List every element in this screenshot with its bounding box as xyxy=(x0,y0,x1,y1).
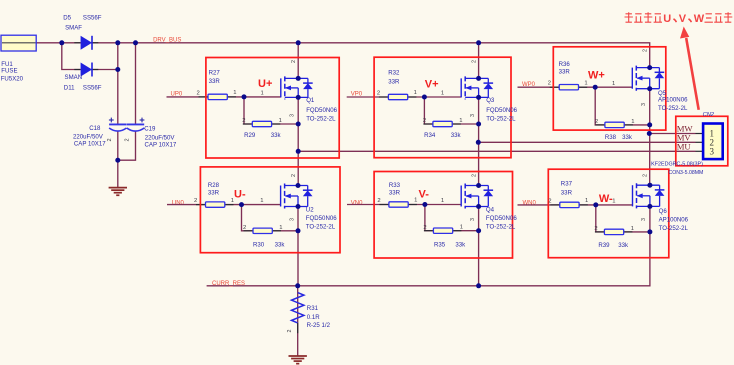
svg-text:3: 3 xyxy=(290,114,296,117)
svg-text:2: 2 xyxy=(197,90,200,96)
svg-text:FQD50N06: FQD50N06 xyxy=(306,107,337,114)
svg-text:C18: C18 xyxy=(89,125,101,132)
svg-text:1: 1 xyxy=(231,198,234,204)
svg-text:3: 3 xyxy=(710,147,715,157)
svg-text:FUSE: FUSE xyxy=(1,67,17,74)
svg-text:2: 2 xyxy=(643,174,649,177)
svg-text:FQD50N06: FQD50N06 xyxy=(486,215,517,222)
svg-text:R29: R29 xyxy=(244,132,256,139)
svg-text:1: 1 xyxy=(279,118,282,124)
svg-text:1: 1 xyxy=(441,91,444,97)
svg-text:2: 2 xyxy=(594,226,597,232)
svg-text:SS56F: SS56F xyxy=(83,85,102,92)
svg-text:U-: U- xyxy=(234,188,246,200)
svg-text:2: 2 xyxy=(423,118,426,124)
svg-text:33k: 33k xyxy=(618,242,629,249)
svg-text:KF2EDGRC-5.08(3P): KF2EDGRC-5.08(3P) xyxy=(651,162,703,168)
svg-text:0.1R: 0.1R xyxy=(307,314,320,321)
svg-text:CON3-5.08MM: CON3-5.08MM xyxy=(669,170,704,176)
svg-text:R35: R35 xyxy=(434,242,446,249)
svg-text:33R: 33R xyxy=(209,78,221,85)
svg-text:AP100N06: AP100N06 xyxy=(658,96,688,103)
svg-text:R27: R27 xyxy=(209,70,221,77)
svg-text:R37: R37 xyxy=(561,181,573,188)
svg-text:CAP 10X17: CAP 10X17 xyxy=(74,141,106,148)
svg-text:2: 2 xyxy=(643,49,649,52)
svg-text:R38: R38 xyxy=(605,134,617,141)
svg-text:SMAF: SMAF xyxy=(65,25,82,32)
svg-text:DRV_BUS: DRV_BUS xyxy=(153,37,181,43)
svg-text:1: 1 xyxy=(414,198,417,204)
svg-text:FU5X20: FU5X20 xyxy=(1,75,24,82)
svg-text:2: 2 xyxy=(595,119,598,125)
svg-text:R34: R34 xyxy=(424,132,436,139)
svg-text:R39: R39 xyxy=(598,242,610,249)
svg-text:33R: 33R xyxy=(559,68,571,75)
svg-text:SS56F: SS56F xyxy=(83,15,102,22)
svg-text:2: 2 xyxy=(291,174,297,177)
svg-text:V: V xyxy=(679,13,687,25)
svg-text:R-25 1/2: R-25 1/2 xyxy=(307,322,331,329)
svg-text:R32: R32 xyxy=(388,70,400,77)
svg-text:3: 3 xyxy=(641,103,647,106)
svg-text:1: 1 xyxy=(279,225,282,231)
svg-text:V+: V+ xyxy=(425,78,439,90)
svg-text:TO-252-2L: TO-252-2L xyxy=(658,105,688,112)
svg-text:2: 2 xyxy=(194,198,197,204)
svg-text:3: 3 xyxy=(289,218,295,221)
svg-text:1: 1 xyxy=(585,198,588,204)
svg-text:1: 1 xyxy=(233,90,236,96)
svg-text:TO-252-2L: TO-252-2L xyxy=(659,225,689,232)
svg-text:2: 2 xyxy=(287,330,293,333)
svg-text:W+: W+ xyxy=(588,69,605,81)
svg-text:2: 2 xyxy=(243,225,246,231)
svg-text:33R: 33R xyxy=(388,79,400,86)
svg-text:C19: C19 xyxy=(144,125,156,132)
svg-text:33k: 33k xyxy=(622,134,633,141)
svg-text:2: 2 xyxy=(107,138,113,141)
svg-text:TO-252-2L: TO-252-2L xyxy=(486,116,516,123)
svg-text:1: 1 xyxy=(260,198,263,204)
svg-text:D5: D5 xyxy=(63,15,71,22)
svg-text:FQD50N06: FQD50N06 xyxy=(306,215,337,222)
svg-text:FQD50N06: FQD50N06 xyxy=(486,107,517,114)
svg-text:D11: D11 xyxy=(64,85,75,92)
svg-text:1: 1 xyxy=(631,226,634,232)
svg-text:TO-252-2L: TO-252-2L xyxy=(306,116,336,123)
svg-text:UN0: UN0 xyxy=(172,200,185,206)
svg-text:33R: 33R xyxy=(561,189,573,196)
svg-text:33k: 33k xyxy=(271,132,282,139)
svg-text:VN0: VN0 xyxy=(351,200,363,206)
svg-text:1: 1 xyxy=(612,81,615,87)
svg-text:W-: W- xyxy=(599,193,613,205)
svg-text:V-: V- xyxy=(419,188,430,200)
svg-text:CURR_RES: CURR_RES xyxy=(212,281,245,287)
svg-text:Q4: Q4 xyxy=(486,207,495,214)
svg-text:220uF/50V: 220uF/50V xyxy=(145,135,176,142)
svg-text:1: 1 xyxy=(460,225,463,231)
svg-text:R28: R28 xyxy=(208,182,220,189)
svg-text:1: 1 xyxy=(414,90,417,96)
svg-text:1: 1 xyxy=(584,80,587,86)
svg-text:3: 3 xyxy=(470,218,476,221)
svg-text:2: 2 xyxy=(471,60,477,63)
svg-text:220uF/50V: 220uF/50V xyxy=(73,133,104,140)
svg-text:Q3: Q3 xyxy=(486,97,495,104)
svg-text:2: 2 xyxy=(377,198,380,204)
svg-text:TO-252-2L: TO-252-2L xyxy=(306,224,336,231)
svg-text:2: 2 xyxy=(423,225,426,231)
svg-text:TO-252-2L: TO-252-2L xyxy=(486,224,516,231)
svg-text:33k: 33k xyxy=(455,242,466,249)
svg-text:Q6: Q6 xyxy=(659,208,668,215)
svg-text:CN2: CN2 xyxy=(703,112,715,118)
svg-text:33R: 33R xyxy=(208,190,220,197)
svg-text:33R: 33R xyxy=(389,190,401,197)
svg-text:U+: U+ xyxy=(258,78,272,90)
svg-text:R36: R36 xyxy=(559,61,571,68)
svg-text:2: 2 xyxy=(242,118,245,124)
svg-text:3: 3 xyxy=(641,218,647,221)
svg-text:3: 3 xyxy=(470,114,476,117)
svg-text:SMAN: SMAN xyxy=(65,74,83,81)
svg-text:2: 2 xyxy=(125,138,131,141)
svg-text:R33: R33 xyxy=(389,182,401,189)
svg-text:1: 1 xyxy=(441,198,444,204)
svg-text:U: U xyxy=(663,13,671,25)
svg-text:U2: U2 xyxy=(306,207,314,214)
svg-text:1: 1 xyxy=(612,199,615,205)
svg-text:2: 2 xyxy=(291,60,297,63)
svg-text:1: 1 xyxy=(631,119,634,125)
svg-text:W: W xyxy=(694,13,705,25)
svg-text:2: 2 xyxy=(377,90,380,96)
svg-text:MU: MU xyxy=(677,142,692,152)
svg-text:2: 2 xyxy=(548,81,551,87)
svg-text:Q1: Q1 xyxy=(306,97,315,104)
svg-text:1: 1 xyxy=(261,91,264,97)
svg-text:AP100N06: AP100N06 xyxy=(659,217,689,224)
svg-text:2: 2 xyxy=(471,174,477,177)
svg-text:33k: 33k xyxy=(275,242,286,249)
svg-text:R31: R31 xyxy=(307,305,319,312)
svg-text:2: 2 xyxy=(548,198,551,204)
svg-text:CAP 10X17: CAP 10X17 xyxy=(145,142,177,149)
svg-text:33k: 33k xyxy=(451,132,462,139)
svg-text:WN0: WN0 xyxy=(523,201,537,207)
svg-text:R30: R30 xyxy=(253,242,265,249)
svg-text:1: 1 xyxy=(459,118,462,124)
